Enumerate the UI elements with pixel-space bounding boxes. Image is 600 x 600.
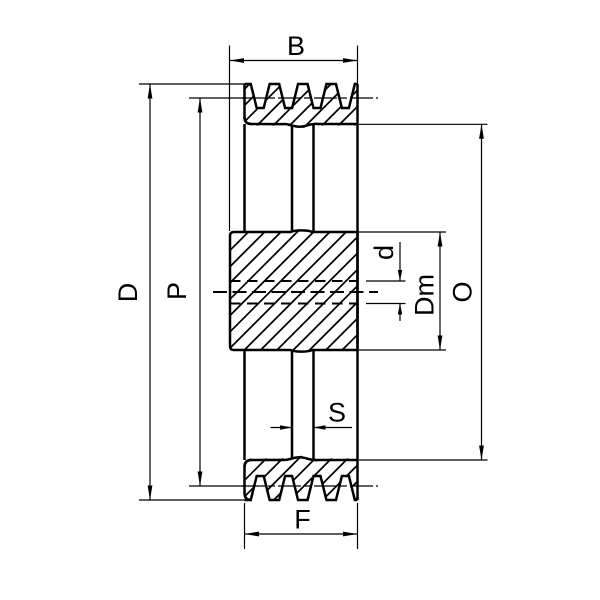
svg-text:D: D bbox=[113, 283, 143, 303]
dim line B bbox=[230, 60, 358, 62]
ext line d top bbox=[366, 280, 406, 282]
web left edge, upper bbox=[291, 125, 294, 233]
arrow O top bbox=[479, 124, 484, 139]
arrow d upper (points down) bbox=[398, 270, 402, 281]
ext line Dm bottom bbox=[359, 349, 446, 351]
dim line P bbox=[199, 98, 201, 486]
pulley right edge bbox=[356, 84, 359, 500]
arrow B right bbox=[343, 58, 358, 63]
bottom rim left edge with rounded corners bbox=[245, 460, 252, 500]
web/rim inner vertical, upper left bbox=[243, 124, 246, 232]
ext line B left bbox=[229, 46, 231, 232]
bore hidden line, upper bbox=[230, 280, 358, 282]
dim line S left tail bbox=[271, 427, 293, 429]
arrow P top bbox=[198, 98, 203, 113]
ext line F right bbox=[357, 503, 359, 549]
dim line D bbox=[149, 84, 151, 500]
svg-text:Dm: Dm bbox=[410, 274, 440, 316]
arrow F left bbox=[245, 532, 260, 537]
ext line Dm top bbox=[359, 231, 446, 233]
svg-text:F: F bbox=[294, 505, 311, 535]
web right edge, lower bbox=[312, 350, 315, 460]
arrow Dm top bbox=[438, 232, 443, 247]
top rim left edge with rounded corner bbox=[245, 84, 252, 124]
ext line O top bbox=[359, 123, 488, 125]
svg-text:P: P bbox=[162, 282, 192, 300]
dim line F bbox=[245, 533, 358, 535]
pitch line bottom (dash-dot across grooves) bbox=[242, 485, 378, 487]
top rim groove profile (4 V-grooves) bbox=[245, 84, 358, 108]
bore hidden line, lower bbox=[230, 303, 358, 305]
dim line d upper tail bbox=[399, 242, 401, 281]
ext line F left bbox=[244, 503, 246, 549]
hub outline bbox=[230, 230, 358, 351]
svg-text:d: d bbox=[369, 245, 399, 260]
dim line S right tail bbox=[314, 427, 353, 429]
arrow B left bbox=[230, 58, 245, 63]
arrow d lower (points up) bbox=[398, 304, 402, 315]
arrow D bottom bbox=[148, 486, 153, 501]
arrow S left (points right) bbox=[280, 425, 292, 429]
arrow O bottom bbox=[479, 446, 484, 461]
arrow S right (points left) bbox=[314, 425, 326, 429]
ext line D bottom bbox=[139, 499, 246, 501]
dim line Dm bbox=[439, 232, 441, 350]
pitch line top (dash-dot across grooves) bbox=[242, 97, 378, 99]
dim line O bbox=[481, 124, 483, 460]
bottom rim groove profile (4 V-grooves) bbox=[245, 476, 358, 500]
ext line O bottom bbox=[359, 459, 488, 461]
top rim inner wavy edge bbox=[245, 117, 358, 127]
ext line P top bbox=[189, 97, 246, 99]
svg-text:B: B bbox=[287, 31, 305, 61]
web left edge, lower bbox=[291, 350, 294, 460]
horizontal centerline bbox=[213, 291, 378, 293]
bottom rim inner wavy edge bbox=[245, 457, 358, 467]
ext line D top bbox=[139, 83, 246, 85]
web/rim inner vertical, lower left bbox=[243, 350, 246, 460]
arrow D top bbox=[148, 84, 153, 99]
ext line B right bbox=[357, 46, 359, 85]
web right edge, upper bbox=[312, 125, 315, 233]
arrow P bottom bbox=[198, 472, 203, 487]
dim line d lower tail bbox=[399, 304, 401, 322]
ext line P bottom bbox=[189, 485, 246, 487]
arrow F right bbox=[343, 532, 358, 537]
ext line d bottom bbox=[366, 303, 406, 305]
svg-text:S: S bbox=[328, 398, 346, 428]
arrow Dm bottom bbox=[438, 336, 443, 351]
svg-text:O: O bbox=[448, 281, 478, 302]
